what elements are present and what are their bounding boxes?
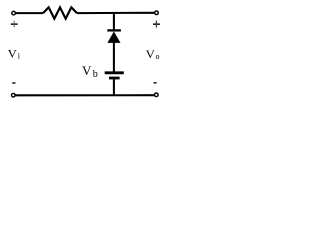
svg-text:i: i <box>18 51 21 60</box>
svg-text:V: V <box>8 48 18 61</box>
svg-text:o: o <box>156 52 160 61</box>
svg-text:V: V <box>82 64 92 78</box>
svg-text:V: V <box>146 48 156 61</box>
svg-text:b: b <box>93 69 98 80</box>
